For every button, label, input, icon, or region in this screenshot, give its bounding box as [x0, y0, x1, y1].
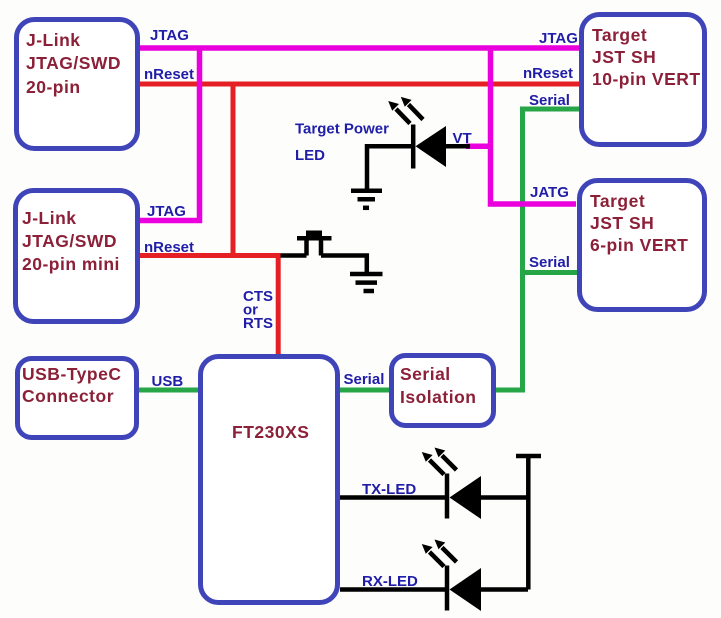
- ground GND1 (Target Power LED): [351, 191, 382, 208]
- svg-text:nReset: nReset: [523, 65, 573, 82]
- svg-text:20-pin mini: 20-pin mini: [22, 254, 120, 274]
- block USB-TypeC Connector: [18, 359, 137, 438]
- wire nReset top (J-Link 20-pin to Target 10-pin): [140, 82, 580, 87]
- svg-text:VT: VT: [453, 130, 472, 147]
- svg-text:Serial: Serial: [344, 371, 385, 388]
- svg-text:LED: LED: [295, 147, 325, 164]
- wire CTS/RTS vertical into FT230XS: [276, 253, 281, 356]
- svg-text:JTAG: JTAG: [147, 203, 186, 220]
- svg-text:Target: Target: [590, 191, 645, 211]
- svg-text:Serial: Serial: [529, 254, 570, 271]
- wire USB (USB-TypeC to FT230XS): [139, 388, 200, 393]
- svg-text:J-Link: J-Link: [26, 30, 81, 50]
- wire button left leg to CTS node: [281, 253, 307, 258]
- svg-text:6-pin VERT: 6-pin VERT: [590, 235, 688, 255]
- power rail (LED supply bar): [516, 456, 541, 590]
- svg-text:Serial: Serial: [400, 364, 451, 384]
- wire VT stub (magenta): [466, 144, 493, 150]
- block FT230XS U1: [201, 357, 338, 603]
- svg-text:Target: Target: [592, 25, 647, 45]
- block Target JST SH 10-pin VERT: [582, 15, 705, 145]
- svg-text:JTAG/SWD: JTAG/SWD: [22, 231, 117, 251]
- svg-text:Serial: Serial: [529, 92, 570, 109]
- svg-text:FT230XS: FT230XS: [232, 422, 309, 442]
- svg-text:RX-LED: RX-LED: [362, 573, 418, 590]
- ground GND2 (button): [350, 274, 383, 291]
- svg-text:USB-TypeC: USB-TypeC: [22, 364, 121, 384]
- svg-text:JST SH: JST SH: [590, 213, 654, 233]
- wire JTAG mini branch: [140, 48, 200, 221]
- svg-text:RTS: RTS: [243, 315, 273, 332]
- svg-text:TX-LED: TX-LED: [362, 481, 416, 498]
- svg-text:Target Power: Target Power: [295, 121, 389, 138]
- svg-text:USB: USB: [152, 373, 184, 390]
- block J-Link JTAG/SWD 20-pin: [17, 20, 138, 149]
- LED TX (TX-LED): [340, 448, 528, 520]
- svg-text:JTAG: JTAG: [539, 30, 578, 47]
- LED D1 (Target Power / VT): [388, 97, 446, 169]
- wire button right leg to ground: [321, 256, 367, 273]
- wire JATG branch to Target 6-pin: [491, 48, 577, 204]
- LED RX (RX-LED): [340, 540, 528, 612]
- wire Serial (FT230XS to Serial Isolation): [338, 388, 391, 393]
- wire nReset vertical drop at x=233: [231, 84, 236, 256]
- svg-text:Isolation: Isolation: [400, 387, 476, 407]
- wire VT LED cathode to ground: [367, 146, 413, 189]
- svg-text:nReset: nReset: [144, 239, 194, 256]
- svg-text:JST SH: JST SH: [592, 47, 656, 67]
- svg-text:10-pin VERT: 10-pin VERT: [592, 69, 701, 89]
- block Serial Isolation: [392, 356, 494, 426]
- svg-text:JTAG/SWD: JTAG/SWD: [26, 53, 121, 73]
- svg-text:JTAG: JTAG: [150, 27, 189, 44]
- block J-Link JTAG/SWD 20-pin mini: [16, 191, 138, 322]
- wire JTAG top (J-Link 20-pin to Target 10-pin): [140, 45, 580, 51]
- node VT LED anode stub (black): [446, 144, 470, 149]
- block Target JST SH 6-pin VERT: [580, 181, 705, 310]
- svg-text:Connector: Connector: [22, 386, 114, 406]
- svg-text:J-Link: J-Link: [22, 208, 77, 228]
- wire nReset mini horizontal (J-Link mini to CTS node): [140, 253, 281, 258]
- wire Serial trunk (Serial Isolation right, up to Target 10-pin): [494, 109, 580, 390]
- svg-text:JATG: JATG: [530, 184, 569, 201]
- svg-text:20-pin: 20-pin: [26, 77, 81, 97]
- wire Serial branch to Target 6-pin: [523, 270, 578, 275]
- svg-text:nReset: nReset: [144, 66, 194, 83]
- pushbutton SW1 (reset button): [297, 231, 332, 256]
